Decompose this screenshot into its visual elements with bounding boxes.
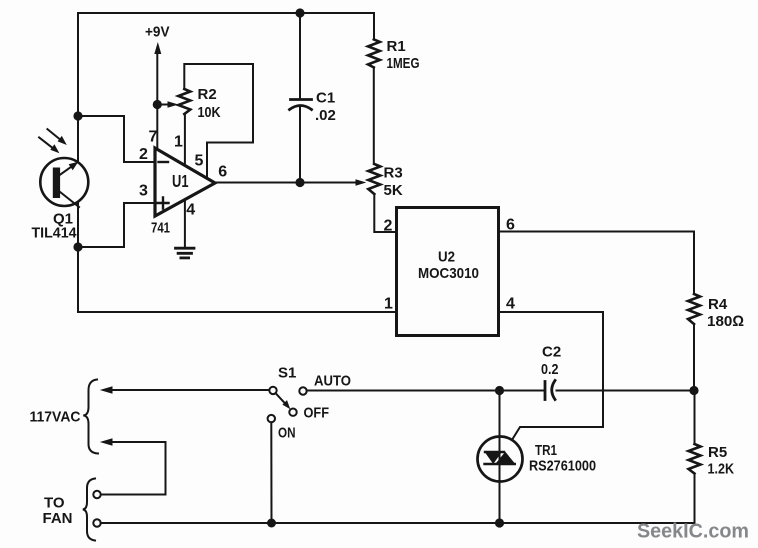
- svg-text:U1: U1: [172, 171, 189, 191]
- svg-text:.02: .02: [315, 107, 336, 124]
- ground: [176, 248, 195, 258]
- svg-text:C1: C1: [316, 90, 335, 107]
- svg-text:ON: ON: [278, 424, 296, 441]
- terminal TO FAN upper: [93, 491, 100, 498]
- capacitor C2: [545, 381, 555, 400]
- wire TR1 vertical (MT2 to MT1): [499, 391, 501, 524]
- svg-text:5: 5: [195, 153, 204, 170]
- node +9V / wiper junction: [153, 100, 162, 109]
- svg-text:1: 1: [384, 296, 393, 313]
- resistor R1: [368, 39, 380, 67]
- svg-text:7: 7: [149, 129, 158, 146]
- node U1 output / C1 bottom junction: [295, 178, 304, 187]
- wire R2 feedback loop to U1 pin 5: [184, 64, 253, 178]
- svg-text:SeekIC.com: SeekIC.com: [637, 521, 749, 543]
- wire U1 pin 4 to ground: [184, 200, 186, 246]
- svg-text:R4: R4: [708, 296, 728, 313]
- svg-text:4: 4: [186, 202, 195, 219]
- light arrows into Q1: [39, 129, 67, 153]
- wire R2 bottom to U1 pin 1: [184, 114, 186, 166]
- svg-text:S1: S1: [278, 365, 296, 382]
- svg-text:R2: R2: [198, 86, 217, 103]
- op-amp U1: [155, 148, 215, 216]
- svg-text:R3: R3: [384, 165, 403, 182]
- svg-text:C2: C2: [542, 344, 561, 361]
- optocoupler U2: [397, 208, 499, 336]
- svg-text:741: 741: [151, 220, 170, 237]
- wire R3 to U2 pin 2: [374, 194, 396, 232]
- wire S1 ON to output rail: [270, 422, 272, 523]
- node Q1 emitter junction: [73, 242, 82, 251]
- svg-text:R1: R1: [387, 38, 406, 55]
- wire R4 to C2 node: [693, 324, 695, 391]
- wire Q1 collector to U1 pin 2: [78, 116, 155, 162]
- svg-text:6: 6: [218, 164, 227, 181]
- wire C2 to R4/R5 node: [557, 390, 695, 392]
- svg-text:1: 1: [174, 134, 183, 151]
- wire Q1 emitter to U1 pin 3: [78, 203, 155, 247]
- node TR1 top junction: [495, 386, 504, 395]
- switch S1: [268, 387, 307, 423]
- wire left rail: [77, 13, 79, 312]
- svg-text:R5: R5: [708, 444, 727, 461]
- svg-text:180Ω: 180Ω: [707, 313, 744, 330]
- svg-text:AUTO: AUTO: [314, 373, 351, 390]
- potentiometer R3: [368, 164, 380, 194]
- wire top rail: [78, 13, 374, 39]
- power +9V arrow: [154, 42, 161, 105]
- wire C1 bottom lead: [299, 107, 301, 183]
- wire R1 to R3: [373, 67, 375, 164]
- svg-text:U2: U2: [438, 249, 455, 266]
- resistor R4: [688, 294, 700, 324]
- svg-text:1MEG: 1MEG: [387, 55, 420, 72]
- wire 117VAC neutral lead with arrow: [100, 438, 166, 494]
- svg-text:10K: 10K: [198, 104, 221, 121]
- svg-text:OFF: OFF: [304, 405, 330, 422]
- resistor R5: [689, 444, 701, 474]
- node C1 top junction: [295, 8, 304, 17]
- svg-text:+9V: +9V: [145, 24, 170, 41]
- wire R5 top lead: [694, 391, 696, 445]
- svg-text:4: 4: [506, 296, 515, 313]
- wire C1 top lead: [299, 13, 301, 98]
- svg-text:1.2K: 1.2K: [708, 461, 735, 478]
- wire R5 bottom to output rail: [694, 474, 696, 524]
- svg-text:TR1: TR1: [535, 442, 557, 459]
- brace TO FAN: [83, 479, 95, 541]
- wire R2 wiper arrow: [157, 101, 178, 108]
- wire U1 output to R3 wiper: [215, 179, 366, 186]
- wire output bottom rail: [101, 522, 695, 524]
- svg-text:5K: 5K: [384, 182, 403, 199]
- svg-text:TIL414: TIL414: [32, 225, 78, 242]
- svg-text:TO: TO: [44, 495, 65, 512]
- triac TR1: [478, 437, 523, 482]
- svg-text:FAN: FAN: [43, 510, 73, 527]
- capacitor C1: [290, 100, 312, 110]
- node TR1 bottom junction: [495, 518, 504, 527]
- svg-text:0.2: 0.2: [541, 361, 559, 378]
- svg-text:MOC3010: MOC3010: [418, 265, 479, 282]
- wire U1 pin 7: [156, 105, 158, 151]
- svg-text:3: 3: [139, 183, 148, 200]
- node Q1 collector junction: [73, 111, 82, 120]
- wire AUTO line to C2: [307, 390, 544, 392]
- node ON / bottom rail junction: [267, 519, 276, 528]
- potentiometer R2: [178, 89, 190, 114]
- wire U2 pin 1 from left rail: [78, 311, 397, 313]
- svg-text:117VAC: 117VAC: [30, 409, 81, 426]
- brace 117VAC: [83, 380, 98, 454]
- svg-text:RS2761000: RS2761000: [529, 458, 596, 475]
- wire U2 pin 6 to R4: [499, 232, 695, 295]
- node C2 / R4 / R5 junction: [689, 386, 698, 395]
- wire U2 pin 4 to TR1 gate: [499, 312, 604, 440]
- wire 117VAC hot lead with arrow: [100, 386, 269, 393]
- svg-text:2: 2: [139, 146, 148, 163]
- svg-text:2: 2: [384, 217, 393, 234]
- terminal TO FAN lower: [93, 519, 100, 526]
- transistor Q1: [40, 158, 88, 207]
